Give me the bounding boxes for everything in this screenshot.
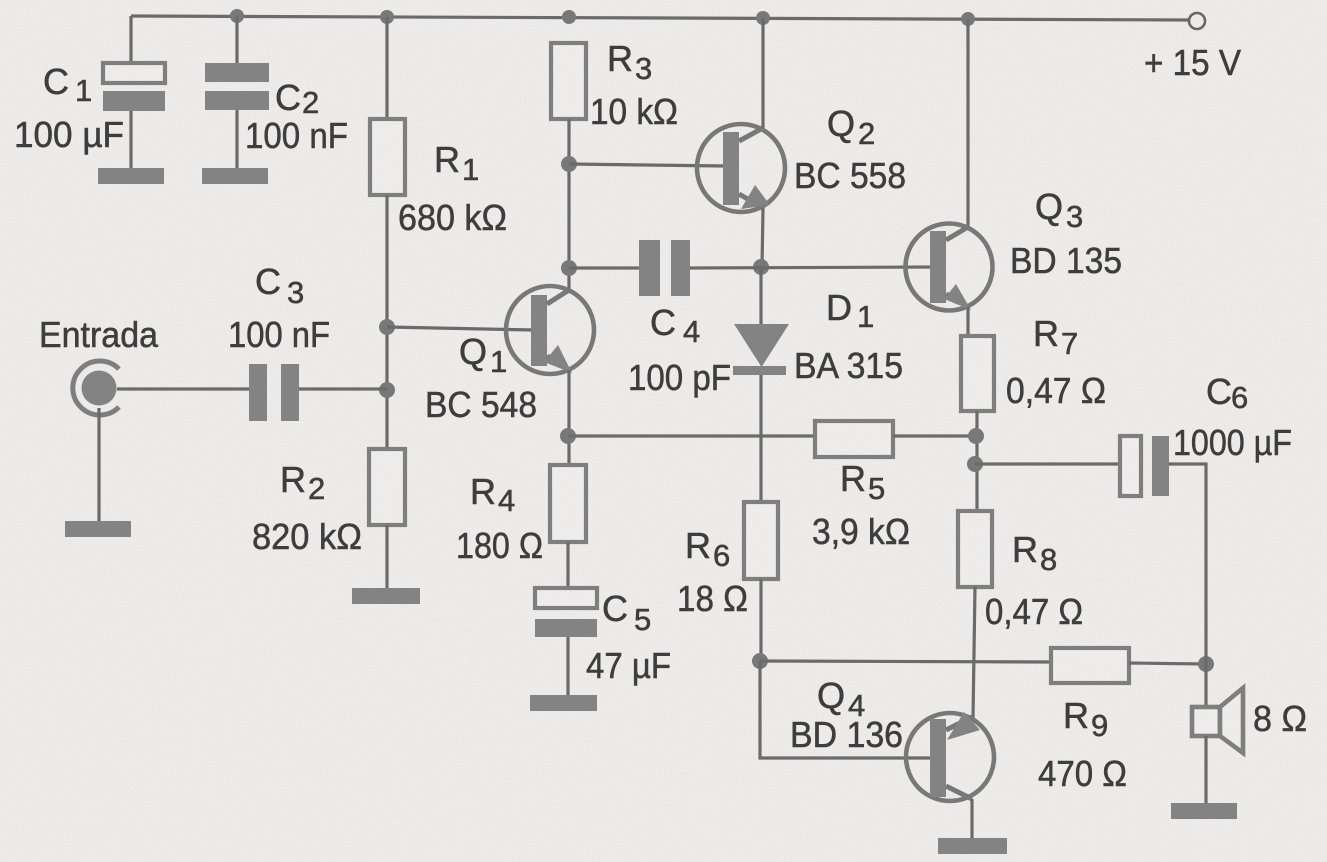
ground under C2 [202, 168, 268, 184]
capacitor C1 [103, 63, 165, 111]
top power rail wire [131, 16, 1189, 20]
wire rail to R1 [385, 17, 388, 119]
ground under Q4 [938, 838, 1007, 854]
wire node to Q2 base [569, 164, 726, 166]
junction dot rail/Q3 [961, 12, 975, 26]
junction dot C6/output [967, 456, 983, 472]
wire Q1 emitter node to R5 [568, 434, 815, 437]
wire rail to Q2 emitter [761, 18, 764, 128]
wire R3 to C4 node [567, 119, 570, 290]
junction dot rail/R3 [562, 10, 576, 24]
ground under jack [65, 521, 131, 537]
wire C1 to ground [129, 111, 132, 168]
wire R1 to node A [385, 195, 388, 449]
input jack [73, 361, 119, 415]
transistor Q1 [506, 286, 594, 374]
junction dot rail/Q2 [756, 11, 770, 25]
wire R2 to ground [385, 525, 388, 588]
wire C1 to rail [129, 16, 132, 64]
resistor R7 [961, 336, 994, 411]
wire R9 to speaker node [1129, 663, 1206, 664]
wire D1 to R6 [759, 375, 762, 502]
wire R5 to output node [893, 434, 976, 437]
wire C2 to rail [235, 16, 238, 64]
resistor R6 [744, 502, 778, 579]
capacitor C2 [205, 63, 269, 110]
capacitor C3 [249, 364, 299, 421]
capacitor C6 [1120, 436, 1169, 496]
wire Q4 collector to ground [970, 799, 973, 838]
junction dot rail/R1 [380, 10, 394, 24]
wire D1 anode [759, 267, 762, 326]
diode D1 [733, 324, 789, 375]
junction dot R5/output [968, 428, 984, 444]
wire node down and to Q4 base [760, 661, 933, 758]
capacitor C5 [535, 588, 597, 637]
wire C6 to speaker [1169, 464, 1206, 707]
ground under C1 [98, 168, 164, 184]
ground under R2 [352, 588, 420, 604]
resistor R8 [958, 511, 992, 587]
wire output to C6 [975, 462, 1120, 465]
junction dot R3/Q2 base [561, 156, 577, 172]
transistor Q4 [906, 712, 994, 801]
wire jack to C3 [117, 387, 249, 390]
resistor R5 [815, 421, 893, 457]
wire Q2 collector down [762, 208, 763, 268]
wire C2 to ground [235, 110, 238, 168]
wire Q3 emitter to R7 [966, 307, 969, 336]
resistor R9 [1051, 648, 1129, 683]
wire R4 to C5 [566, 542, 569, 588]
wire C4 to Q3 base [690, 267, 933, 268]
resistor R1 [370, 119, 405, 195]
wire R8 to Q4 emitter [973, 587, 975, 719]
transistor Q3 [906, 224, 993, 311]
junction dot Q2/C4/D1 [753, 259, 769, 275]
wire speaker to ground [1204, 736, 1207, 803]
wire node A to Q1 base [387, 327, 534, 330]
wire rail to Q3 collector [966, 19, 969, 229]
transistor Q2 [697, 124, 785, 212]
junction dot rail/C2 [230, 9, 244, 23]
junction dot R9/speaker [1198, 656, 1214, 672]
junction dot C4/Q1 collector [561, 260, 577, 276]
wire Q1 emitter down [567, 370, 570, 465]
junction dot node A (Q1 base) [379, 319, 395, 335]
wire jack to ground [97, 408, 100, 521]
+15V terminal [1189, 13, 1205, 29]
wire R7 to output node [975, 411, 978, 511]
resistor R2 [369, 449, 405, 525]
resistor R3 [551, 43, 586, 119]
junction dot R6/R9/Q4 [752, 653, 768, 669]
ground under C5 [530, 695, 597, 711]
wire C4 node to plate [569, 266, 639, 269]
junction dot node B (C3/R2) [379, 382, 395, 398]
capacitor C4 [639, 240, 690, 296]
resistor R4 [550, 465, 586, 542]
wire R6 to node [759, 579, 762, 661]
wire node to R9 [760, 661, 1051, 662]
wire C5 to ground [566, 637, 569, 695]
speaker [1192, 688, 1243, 753]
junction dot Q1 emitter/R5 [560, 428, 576, 444]
ground under speaker [1171, 803, 1237, 819]
wire C3 to node B [299, 387, 387, 390]
